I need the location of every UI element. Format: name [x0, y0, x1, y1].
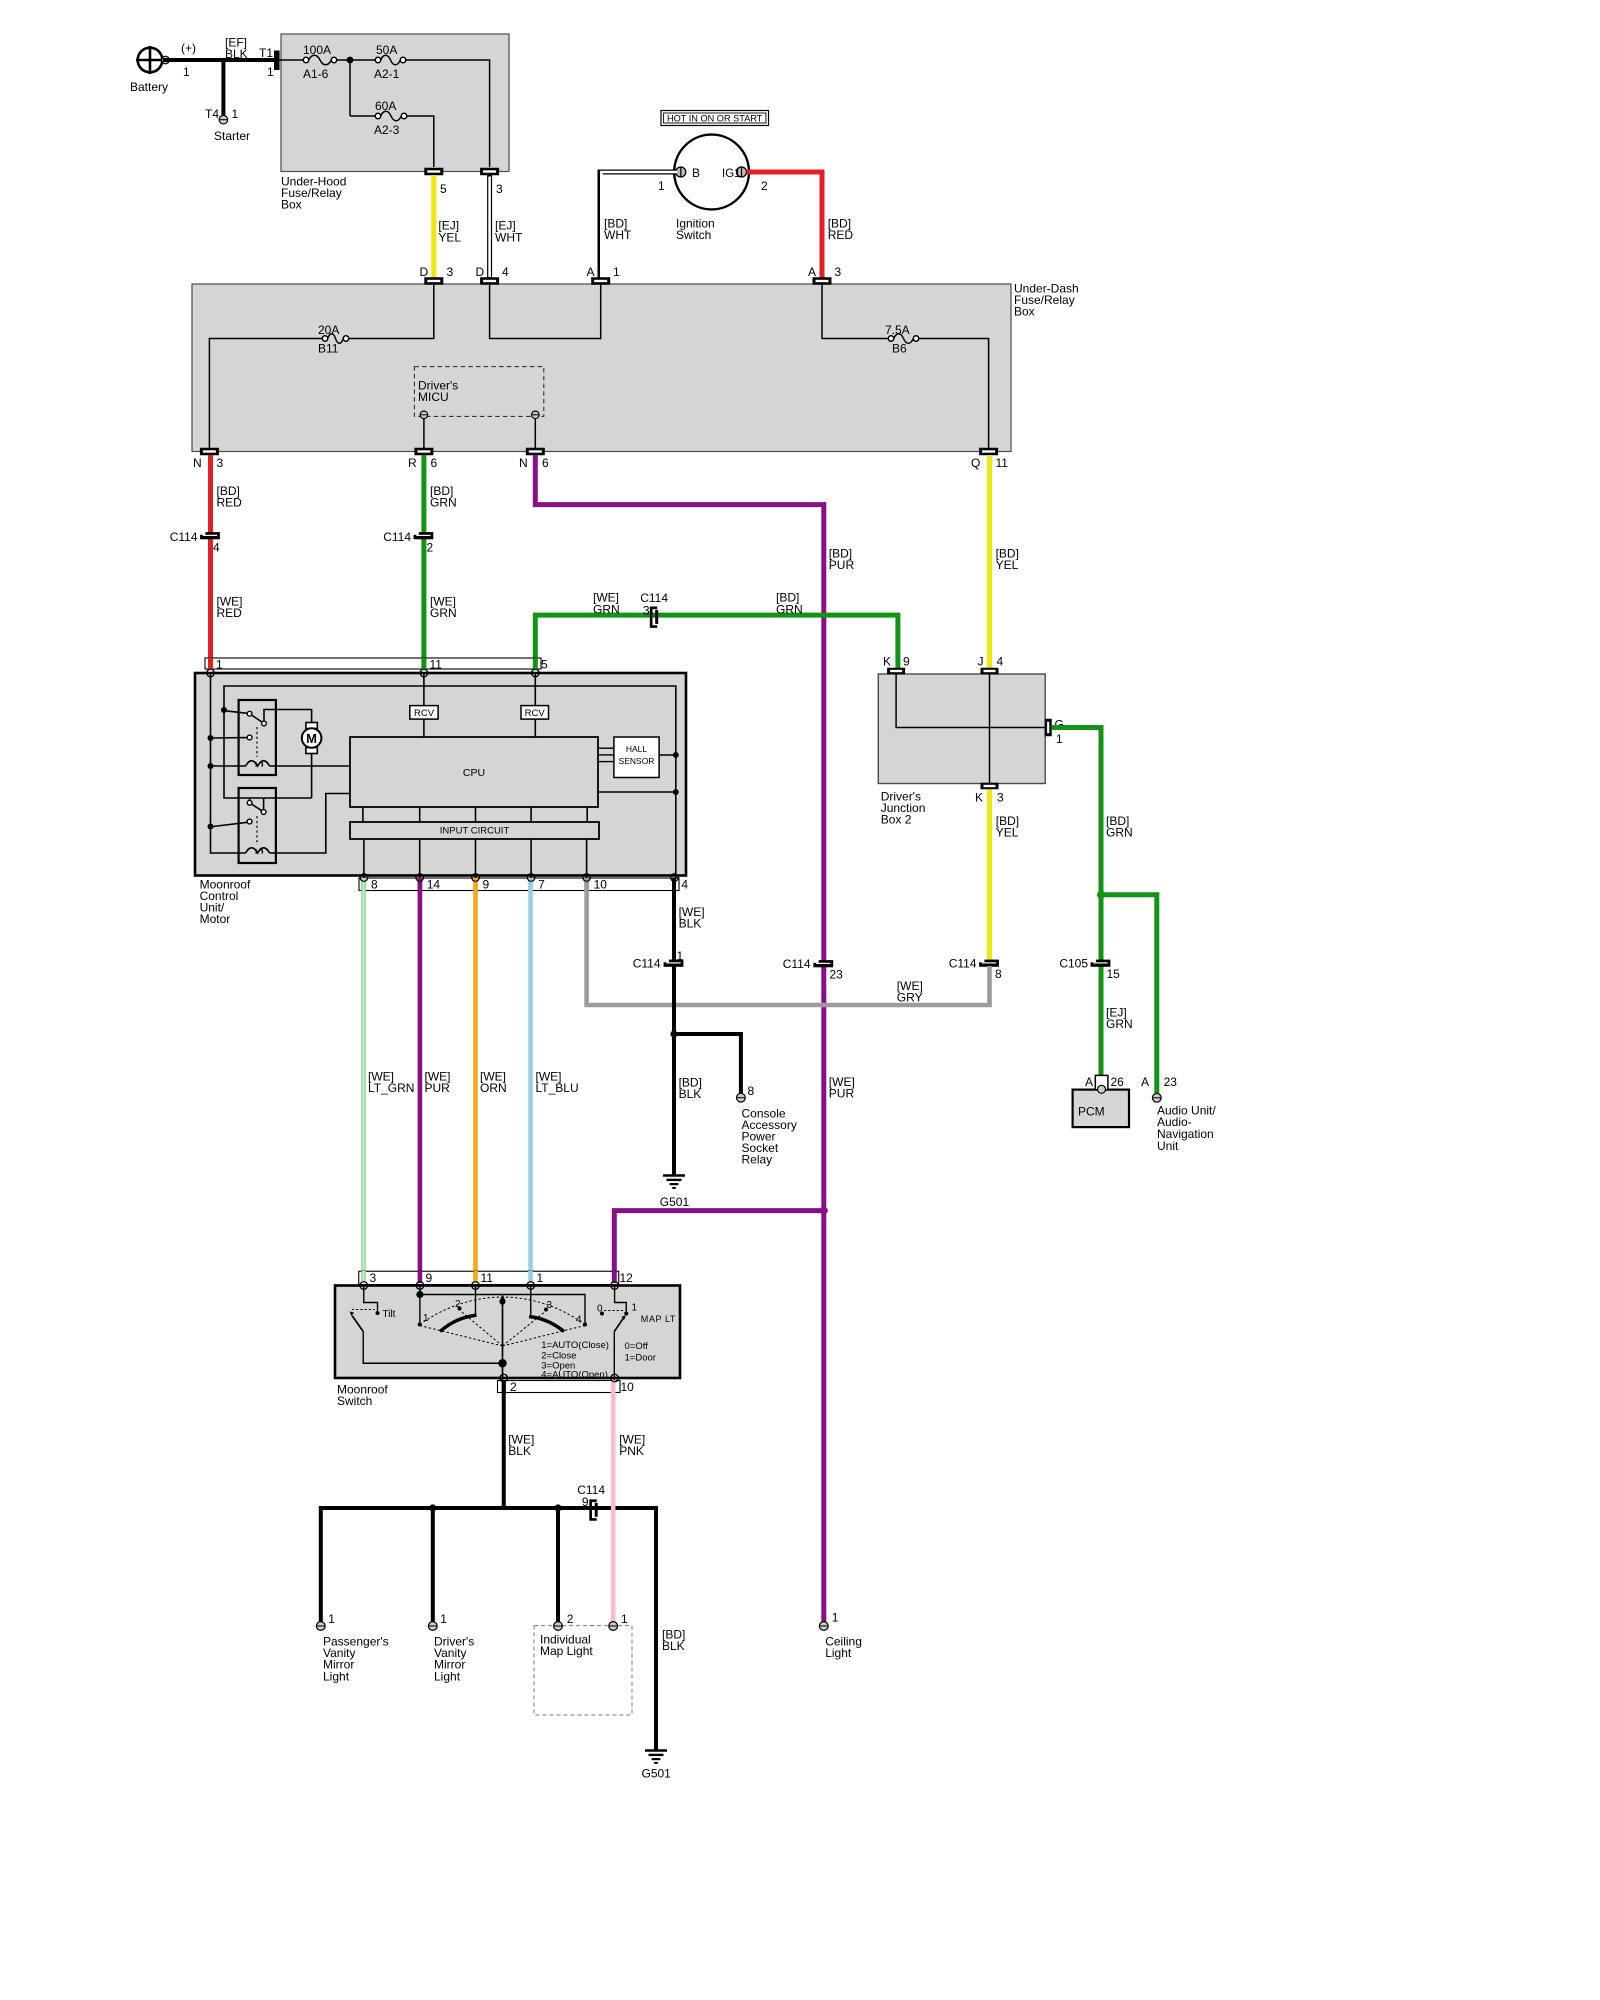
- svg-text:Starter: Starter: [214, 129, 250, 143]
- rotary contacts 1-4: [418, 1323, 422, 1327]
- svg-text:Box: Box: [281, 198, 302, 212]
- lamp ground bus: [321, 1506, 656, 1510]
- RCV 1: [410, 706, 438, 720]
- svg-text:K: K: [883, 655, 891, 669]
- svg-text:RCV: RCV: [414, 708, 435, 719]
- svg-text:HOT IN ON OR START: HOT IN ON OR START: [667, 113, 763, 123]
- svg-text:YEL: YEL: [996, 558, 1019, 572]
- svg-text:GRN: GRN: [1106, 826, 1133, 840]
- svg-text:3: 3: [496, 182, 503, 196]
- svg-text:4: 4: [997, 655, 1004, 669]
- rotary contact feed pin 9: [419, 1286, 421, 1295]
- svg-text:15: 15: [1107, 967, 1121, 981]
- svg-text:2: 2: [567, 1612, 574, 1626]
- svg-text:GRN: GRN: [430, 496, 457, 510]
- under-hood internal wiring: [279, 59, 304, 61]
- svg-text:Light: Light: [825, 1646, 852, 1660]
- svg-text:12: 12: [620, 1271, 634, 1285]
- svg-text:3: 3: [643, 604, 650, 618]
- svg-text:50A: 50A: [376, 43, 397, 57]
- svg-text:Tilt: Tilt: [383, 1309, 396, 1320]
- svg-text:11: 11: [481, 1271, 494, 1285]
- svg-text:1: 1: [632, 1303, 638, 1314]
- svg-text:C114: C114: [383, 530, 411, 544]
- svg-text:1: 1: [537, 1271, 544, 1285]
- svg-text:BLK: BLK: [679, 917, 702, 931]
- svg-text:LT_BLU: LT_BLU: [536, 1081, 579, 1095]
- svg-text:INPUT CIRCUIT: INPUT CIRCUIT: [440, 826, 510, 837]
- junction box pin J4: [981, 668, 999, 675]
- under-hood pin 5: [424, 168, 443, 176]
- relay 1: [239, 700, 276, 775]
- svg-text:BLK: BLK: [225, 47, 248, 61]
- fuse 60A A2-3: [375, 113, 380, 118]
- starter terminal T4 pin 1: [219, 115, 228, 124]
- fuse 20A B11: [322, 336, 327, 341]
- svg-text:C114: C114: [170, 530, 198, 544]
- svg-text:GRN: GRN: [593, 603, 620, 617]
- svg-text:R: R: [408, 456, 417, 470]
- wire [BD] GRN G1 to PCM and audio unit: [1052, 728, 1101, 1076]
- svg-text:BLK: BLK: [508, 1444, 531, 1458]
- svg-text:26: 26: [1111, 1075, 1125, 1089]
- ground G501 (console): [663, 1174, 685, 1177]
- motor bottom lead: [311, 754, 313, 799]
- svg-text:RCV: RCV: [525, 708, 546, 719]
- ceiling light terminal 1: [819, 1622, 828, 1631]
- wire [WE] PNK switch pin10 to map light: [611, 1381, 616, 1622]
- tilt to common: [363, 1332, 499, 1364]
- wire D4-A1 link: [490, 285, 601, 339]
- pin 11 wiper lead: [475, 1286, 477, 1316]
- connector C114 pin 2: [414, 532, 434, 539]
- wire to map light pin 2: [556, 1508, 560, 1622]
- svg-text:A: A: [587, 265, 595, 279]
- wire [BD]/[WE] GRN R6 to moonroof pin 11: [421, 455, 426, 670]
- connector T1 pin 1: [274, 51, 280, 71]
- rotary switch common pole: [498, 1359, 506, 1367]
- svg-text:7: 7: [538, 878, 545, 892]
- ignition terminal IG1: [737, 167, 747, 177]
- wire [BD] BLK to G501: [654, 1508, 656, 1750]
- svg-text:GRN: GRN: [776, 603, 803, 617]
- svg-text:BLK: BLK: [679, 1087, 702, 1101]
- junction box pin K3: [981, 783, 999, 790]
- map light switch: [615, 1286, 627, 1312]
- junction box pin K9: [887, 668, 905, 675]
- purple branch to switch pin 12: [614, 1211, 824, 1283]
- svg-text:Light: Light: [323, 1669, 350, 1683]
- svg-text:PUR: PUR: [829, 1087, 855, 1101]
- svg-text:MAP LT: MAP LT: [641, 1314, 676, 1324]
- connector C105 pin 15: [1091, 960, 1111, 967]
- connector C114 pin 1: [664, 960, 684, 967]
- svg-text:3: 3: [547, 1300, 553, 1311]
- wire [BD] YEL Q11 to J4: [987, 455, 992, 668]
- wire [BD] WHT ignition B to A1 (white): [600, 172, 676, 278]
- svg-text:1: 1: [232, 107, 239, 121]
- svg-text:GRY: GRY: [897, 991, 923, 1005]
- CPU: [350, 737, 598, 807]
- relay1 coil feed / CPU line: [213, 765, 246, 767]
- svg-text:4: 4: [502, 265, 509, 279]
- wire [WE] LT_BLU pin7: [528, 881, 533, 1282]
- RCV 2: [521, 706, 549, 720]
- map light terminal 1: [609, 1622, 618, 1631]
- under-dash pin D3: [424, 277, 443, 285]
- pin circles redrawn: [207, 669, 215, 677]
- relay 2: [239, 788, 276, 863]
- motor-bottom return path: [224, 710, 312, 798]
- svg-text:10: 10: [621, 1380, 635, 1394]
- relay2 coil to CPU: [270, 794, 351, 854]
- svg-text:HALL: HALL: [626, 744, 648, 754]
- console accessory power socket relay terminal 8: [737, 1093, 746, 1102]
- under-dash pin A1: [591, 277, 610, 285]
- svg-text:BLK: BLK: [662, 1639, 685, 1653]
- svg-text:1: 1: [183, 65, 190, 79]
- under-dash pin R6: [414, 448, 433, 456]
- svg-text:PUR: PUR: [829, 558, 855, 572]
- svg-text:C114: C114: [783, 957, 811, 971]
- INPUT CIRCUIT: [350, 822, 599, 839]
- driver vanity mirror light terminal 1: [428, 1622, 437, 1631]
- svg-text:4=AUTO(Open): 4=AUTO(Open): [541, 1370, 608, 1381]
- svg-text:4: 4: [213, 541, 220, 555]
- svg-text:11: 11: [996, 456, 1009, 470]
- rotary dashed radials: [420, 1326, 503, 1347]
- svg-text:B11: B11: [318, 342, 339, 356]
- switch pin circles: [360, 1282, 368, 1290]
- svg-text:1: 1: [658, 179, 665, 193]
- +B rail from pin1: [211, 673, 246, 853]
- svg-text:RED: RED: [217, 606, 243, 620]
- svg-text:7.5A: 7.5A: [885, 323, 910, 337]
- svg-text:J: J: [978, 655, 984, 669]
- svg-text:CPU: CPU: [463, 767, 485, 779]
- PCM terminal A26: [1095, 1075, 1108, 1089]
- wire [BD] YEL K3 to C114-8: [987, 790, 992, 962]
- moonroof unit top connector strip: [205, 658, 541, 669]
- under-dash pin D4: [480, 277, 499, 285]
- svg-text:8: 8: [371, 878, 378, 892]
- junction box internal J4 to K3: [989, 674, 991, 783]
- fuse 7.5A B6: [888, 336, 893, 341]
- map light common to pin 10: [613, 1332, 615, 1381]
- svg-text:A: A: [1085, 1075, 1093, 1089]
- wire [WE] LT_GRN pin8: [361, 881, 366, 1282]
- connector C114 pin 4: [200, 532, 220, 539]
- svg-text:A2-3: A2-3: [374, 123, 400, 137]
- svg-text:1: 1: [440, 1612, 447, 1626]
- junction box internal K9 to G: [896, 674, 1045, 728]
- svg-text:20A: 20A: [318, 323, 339, 337]
- svg-text:23: 23: [830, 968, 844, 982]
- wire [WE] ORN pin9: [473, 881, 478, 1282]
- motor M: [306, 723, 317, 729]
- svg-text:Unit: Unit: [1157, 1139, 1179, 1153]
- svg-text:M: M: [306, 731, 317, 746]
- wire to passenger vanity light: [319, 1506, 323, 1622]
- wire [WE] BLK unit pin4 to G501: [672, 881, 676, 1175]
- individual map light dashed box: [534, 1626, 632, 1715]
- svg-text:C105: C105: [1059, 957, 1088, 971]
- svg-text:0: 0: [597, 1304, 603, 1315]
- wire [WE] PUR pin14: [418, 881, 423, 1282]
- svg-text:Battery: Battery: [130, 80, 168, 94]
- svg-text:GRN: GRN: [1106, 1017, 1133, 1031]
- svg-text:1: 1: [216, 658, 223, 672]
- switch bottom connector strip: [498, 1381, 621, 1393]
- svg-text:8: 8: [748, 1084, 755, 1098]
- svg-text:A: A: [808, 265, 816, 279]
- svg-text:2: 2: [761, 179, 768, 193]
- svg-text:2: 2: [427, 541, 434, 555]
- svg-text:Switch: Switch: [676, 228, 711, 242]
- under-dash pin A3: [813, 277, 832, 285]
- under-dash wiring D3 to fuse 20A to N3: [349, 285, 434, 339]
- wire junction to 60A fuse: [349, 63, 351, 116]
- svg-text:1=AUTO(Close): 1=AUTO(Close): [541, 1340, 609, 1351]
- branch to console accessory relay: [670, 1030, 677, 1037]
- svg-text:B6: B6: [892, 342, 907, 356]
- svg-text:60A: 60A: [375, 99, 396, 113]
- wire to driver vanity light: [431, 1508, 435, 1622]
- svg-text:Map Light: Map Light: [540, 1644, 593, 1658]
- svg-text:D: D: [420, 265, 429, 279]
- svg-text:C114: C114: [633, 957, 661, 971]
- tilt switch: [364, 1286, 378, 1312]
- ignition terminal B: [676, 167, 686, 177]
- svg-text:14: 14: [427, 878, 441, 892]
- svg-text:3: 3: [997, 791, 1004, 805]
- svg-text:K: K: [975, 791, 983, 805]
- svg-text:PUR: PUR: [425, 1081, 451, 1095]
- wire 60A to pin 5: [407, 116, 434, 167]
- under-dash pin N6: [526, 448, 545, 456]
- relay1 lower contact feed: [213, 737, 247, 739]
- svg-text:YEL: YEL: [996, 826, 1019, 840]
- svg-text:C114: C114: [949, 957, 977, 971]
- wire to starter: [221, 60, 225, 116]
- wire [WE] PUR to ceiling light: [821, 1212, 826, 1622]
- svg-text:4: 4: [681, 878, 688, 892]
- ignition switch circle: [674, 135, 749, 210]
- svg-text:5: 5: [440, 182, 447, 196]
- svg-text:1: 1: [832, 1611, 839, 1625]
- connector C114 pin 9: [589, 1499, 596, 1520]
- INPUT CIRCUIT to pins: [363, 839, 365, 878]
- svg-text:G501: G501: [660, 1195, 690, 1209]
- ground G501 (lamps): [645, 1749, 667, 1752]
- relay1 coil: [246, 761, 270, 766]
- wiper arcs: [440, 1315, 477, 1331]
- Moonroof Control Unit/Motor box: [195, 673, 686, 876]
- svg-text:8: 8: [995, 967, 1002, 981]
- svg-text:Relay: Relay: [742, 1153, 773, 1167]
- svg-text:RED: RED: [828, 228, 854, 242]
- svg-text:T1: T1: [259, 46, 273, 60]
- relay1 upper contact feed: [226, 711, 248, 714]
- svg-text:PCM: PCM: [1078, 1105, 1105, 1119]
- wire [WE] BLK switch pin2 to lamp bus: [502, 1381, 506, 1508]
- wire [BD]/[WE] RED N3 to moonroof pin 1: [208, 455, 213, 670]
- svg-text:D: D: [476, 265, 485, 279]
- Driver's Junction Box 2: [878, 674, 1045, 784]
- svg-text:GRN: GRN: [430, 606, 457, 620]
- Under-Hood Fuse/Relay Box: [281, 34, 509, 172]
- rotary dashed arcs: [420, 1297, 585, 1325]
- relay2 lower contact feed: [213, 822, 247, 826]
- unit pin circles: [207, 669, 215, 677]
- svg-text:Q: Q: [971, 456, 980, 470]
- svg-text:3: 3: [447, 265, 454, 279]
- passenger vanity mirror light terminal 1: [316, 1622, 325, 1631]
- HOT IN ON OR START label box: [661, 111, 769, 126]
- svg-text:T4: T4: [205, 107, 219, 121]
- wire [WE]/[BD] GRN moonroof pin5 to K9: [535, 615, 898, 670]
- svg-text:1=Door: 1=Door: [625, 1353, 656, 1364]
- wire [BD] PUR N6 down right and to C114-23: [535, 455, 824, 1208]
- svg-text:IG1: IG1: [722, 168, 741, 180]
- map light terminal 2: [554, 1622, 563, 1631]
- MICU terminal left: [420, 411, 428, 419]
- wire [EJ] YEL pin5 to D3: [431, 175, 436, 278]
- pin 1 wiper lead: [530, 1286, 532, 1317]
- under-dash pin Q11: [979, 448, 998, 456]
- wire [WE] GRY pin10 to C114-8: [587, 881, 990, 1005]
- svg-text:1: 1: [613, 265, 620, 279]
- Under-Dash Fuse/Relay Box: [192, 284, 1011, 452]
- relay1 common to motor top: [264, 710, 312, 723]
- ground rail (pin4 net) around unit: [224, 686, 676, 878]
- svg-text:3: 3: [217, 456, 224, 470]
- MICU terminal right: [532, 411, 540, 419]
- svg-text:RED: RED: [217, 496, 243, 510]
- svg-text:9: 9: [582, 1495, 589, 1509]
- svg-text:(+): (+): [181, 41, 196, 55]
- svg-text:23: 23: [1164, 1075, 1178, 1089]
- wire A3 to fuse 7.5A to Q11: [822, 285, 888, 339]
- Driver's MICU dashed module: [414, 367, 543, 417]
- svg-text:N: N: [193, 456, 202, 470]
- svg-text:SENSOR: SENSOR: [619, 756, 655, 766]
- svg-text:1: 1: [267, 65, 274, 79]
- connector C114 pin 3: [650, 607, 657, 628]
- relay2 coil: [246, 848, 270, 853]
- svg-text:0=Off: 0=Off: [625, 1341, 649, 1352]
- wire [EJ] WHT pin3 to D4 (white wire): [487, 175, 492, 278]
- map light blade: [614, 1319, 623, 1332]
- svg-text:9: 9: [903, 655, 910, 669]
- svg-text:6: 6: [431, 456, 438, 470]
- junction box pin G1: [1045, 719, 1052, 737]
- wires MICU terminals to R6 N6: [423, 419, 425, 448]
- Moonroof Switch box: [335, 1286, 680, 1379]
- svg-text:Box: Box: [1014, 305, 1035, 319]
- PCM: [1073, 1090, 1129, 1128]
- fuse 100A A1-6: [303, 57, 308, 62]
- tilt blade: [352, 1316, 363, 1332]
- under-dash pin N3: [200, 448, 219, 456]
- wire 50A to pin 3: [406, 60, 490, 167]
- svg-text:WHT: WHT: [495, 231, 523, 245]
- node on ground rail: [221, 707, 227, 713]
- svg-text:B: B: [692, 166, 700, 180]
- svg-text:N: N: [519, 456, 528, 470]
- svg-text:3: 3: [835, 265, 842, 279]
- svg-text:4: 4: [576, 1315, 582, 1326]
- svg-text:A2-1: A2-1: [374, 67, 400, 81]
- svg-text:1: 1: [1056, 732, 1063, 746]
- wire battery to T1 [EF] BLK: [163, 58, 274, 62]
- junction node: [347, 57, 354, 64]
- svg-text:A: A: [1141, 1075, 1149, 1089]
- connector C114 pin 23: [813, 960, 833, 967]
- svg-text:2: 2: [510, 1380, 517, 1394]
- svg-text:10: 10: [594, 878, 608, 892]
- svg-text:G501: G501: [642, 1767, 672, 1781]
- fuse 50A A2-1: [375, 57, 380, 62]
- svg-text:Light: Light: [434, 1669, 461, 1683]
- svg-text:PNK: PNK: [619, 1444, 644, 1458]
- svg-text:9: 9: [426, 1271, 433, 1285]
- svg-text:A1-6: A1-6: [303, 67, 329, 81]
- svg-text:6: 6: [542, 456, 549, 470]
- svg-text:5: 5: [541, 658, 548, 672]
- svg-text:3: 3: [370, 1271, 377, 1285]
- svg-text:Box 2: Box 2: [881, 813, 912, 827]
- wire overlays through connector strips: [208, 658, 213, 670]
- svg-text:11: 11: [430, 658, 443, 672]
- switch top connector strip: [359, 1271, 619, 1284]
- CPU to INPUT CIRCUIT links: [362, 807, 364, 822]
- svg-text:1: 1: [328, 1612, 335, 1626]
- svg-text:LT_GRN: LT_GRN: [368, 1081, 414, 1095]
- connector C114 pin 8: [979, 960, 999, 967]
- svg-text:ORN: ORN: [480, 1081, 507, 1095]
- svg-text:MICU: MICU: [418, 390, 449, 404]
- svg-text:WHT: WHT: [604, 228, 632, 242]
- svg-text:100A: 100A: [303, 43, 331, 57]
- battery: [138, 48, 163, 73]
- svg-text:9: 9: [483, 878, 490, 892]
- moonroof unit bottom connector strip: [359, 878, 679, 891]
- svg-text:1: 1: [621, 1612, 628, 1626]
- svg-text:Motor: Motor: [200, 912, 231, 926]
- svg-text:YEL: YEL: [438, 231, 461, 245]
- under-hood pin 3: [480, 168, 499, 176]
- audio unit terminal A23: [1152, 1093, 1161, 1102]
- svg-text:Switch: Switch: [337, 1394, 372, 1408]
- HALL SENSOR: [614, 737, 659, 778]
- wire [BD] RED ignition IG1 to A3: [747, 172, 823, 278]
- svg-text:1: 1: [677, 949, 684, 963]
